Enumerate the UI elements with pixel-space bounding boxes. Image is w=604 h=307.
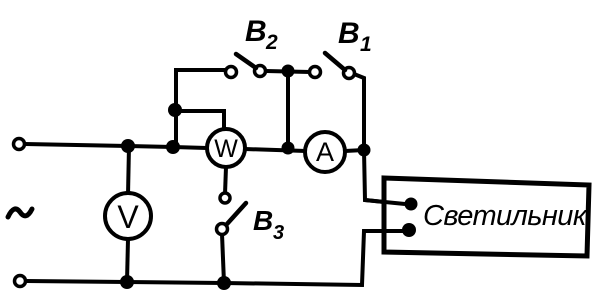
node bottom V junction [120, 275, 134, 289]
node W-A junction [282, 142, 295, 155]
node junction loop [168, 103, 182, 117]
svg-text:1: 1 [360, 33, 372, 56]
svg-text:В: В [338, 17, 360, 50]
wire V branch bottom [127, 239, 128, 282]
switch B2 blade [236, 54, 256, 68]
wire A to node [345, 150, 364, 151]
lamp terminal upper [405, 198, 418, 211]
svg-text:W: W [214, 135, 238, 163]
switch B3 contact top [220, 193, 230, 203]
svg-text:3: 3 [273, 222, 284, 244]
switch B3 wire from W [225, 167, 226, 194]
node right junction [358, 144, 371, 157]
lamp terminal lower [402, 223, 416, 237]
svg-text:Светильник: Светильник [423, 200, 588, 232]
switch B2 contact left [226, 67, 237, 78]
voltmeter U3 [105, 193, 151, 239]
lamp box Светильник [384, 178, 589, 256]
wire loop vertical left [176, 70, 225, 147]
node between switches [282, 65, 295, 78]
svg-text:A: A [316, 137, 334, 167]
svg-text:В: В [253, 205, 273, 236]
terminal top-left [14, 139, 25, 150]
wire V branch top [128, 146, 129, 195]
wire between switches [266, 71, 310, 72]
wire B3 down [222, 234, 224, 283]
wattmeter U1 [207, 129, 245, 167]
switch B1 blade [325, 53, 345, 70]
switch B2 contact right [255, 66, 266, 77]
AC source symbol ~ [8, 209, 32, 217]
wire W to A [245, 149, 306, 151]
switch B1 contact left [310, 67, 321, 78]
switch B3 contact bottom [217, 224, 228, 235]
node loop bottom [166, 140, 180, 154]
node bottom B3 junction [217, 276, 231, 290]
switch B1 contact right [344, 68, 355, 79]
node V top [121, 139, 135, 153]
wire bottom line L2 [26, 231, 404, 285]
svg-text:В: В [245, 15, 267, 48]
wire into lower lamp terminal [364, 229, 404, 233]
ammeter U2 [305, 132, 345, 172]
wire main line L1 [25, 144, 207, 148]
svg-text:V: V [117, 199, 139, 235]
wire wattmeter voltage coil [176, 111, 224, 130]
terminal bottom-left [15, 276, 26, 287]
svg-text:2: 2 [265, 31, 278, 54]
wire middle vertical [286, 71, 290, 148]
wire into upper lamp terminal [365, 200, 405, 204]
switch B3 blade [227, 203, 246, 224]
wire from B1 down to lamp [354, 74, 405, 204]
